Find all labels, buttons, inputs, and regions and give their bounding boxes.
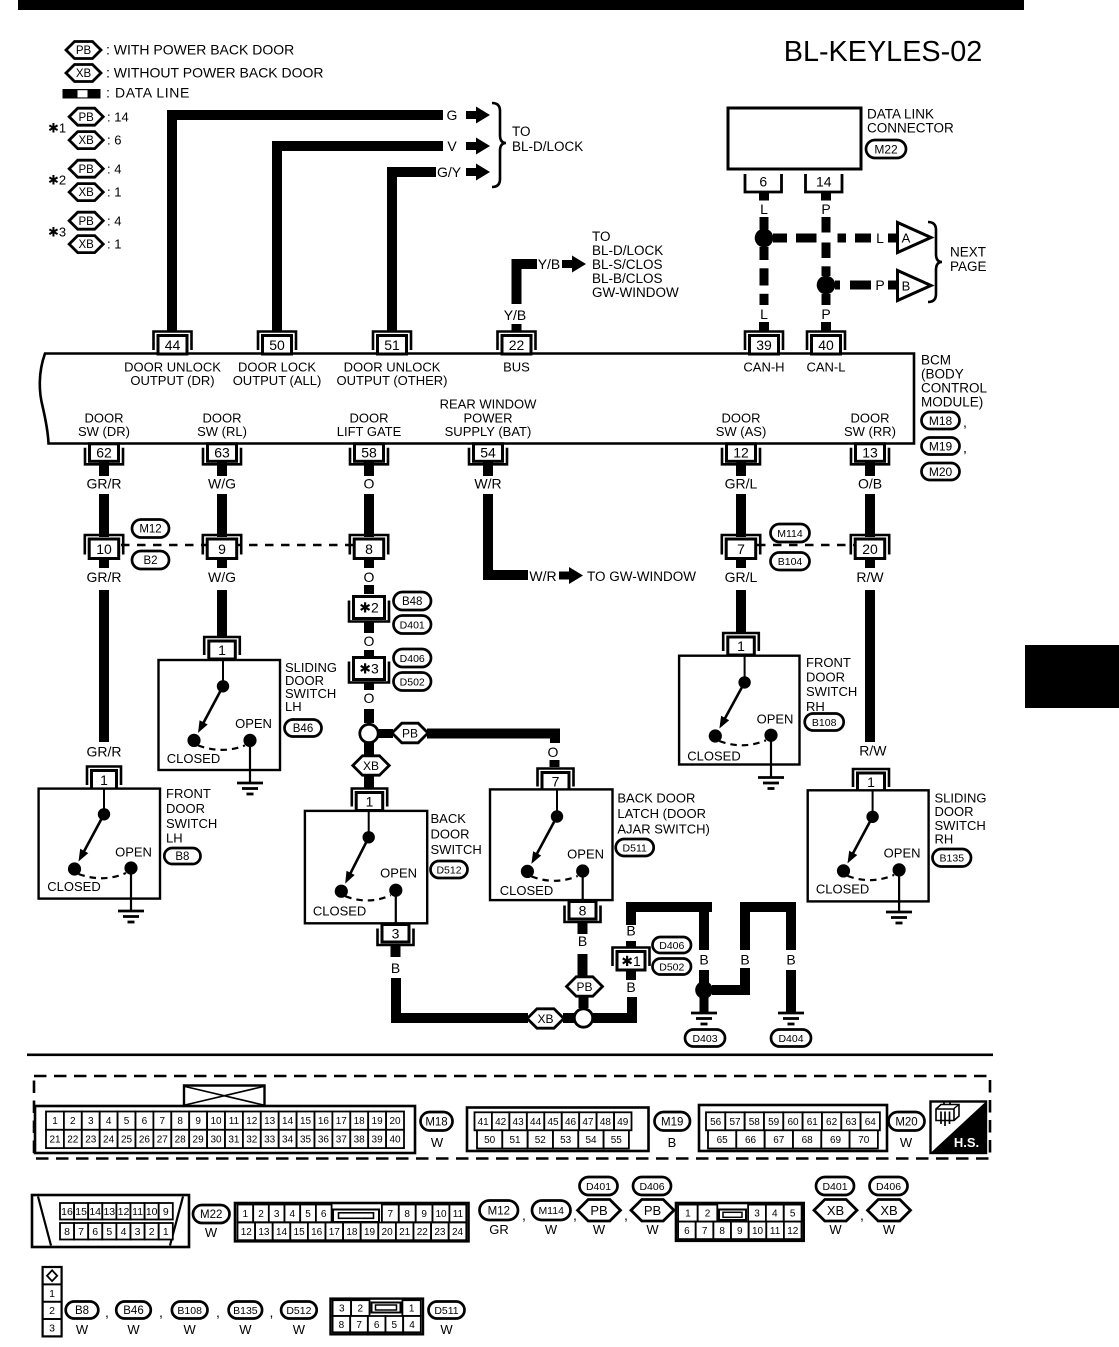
junction dot L <box>755 229 774 248</box>
inline connector pin 9 <box>203 535 241 555</box>
back door latch box <box>490 789 613 900</box>
svg-text:63: 63 <box>845 1117 857 1128</box>
wire stub <box>217 559 227 569</box>
wire G/Y vertical <box>387 172 397 331</box>
svg-text:W: W <box>900 1135 913 1150</box>
svg-text:23: 23 <box>85 1135 97 1146</box>
wire stub <box>99 559 109 569</box>
svg-text:5: 5 <box>124 1116 130 1127</box>
svg-text:O: O <box>364 569 375 585</box>
svg-text:REAR WINDOW: REAR WINDOW <box>440 397 538 412</box>
svg-text:O: O <box>364 476 375 492</box>
svg-text:AJAR SWITCH): AJAR SWITCH) <box>617 822 709 837</box>
svg-text:9: 9 <box>421 1209 427 1220</box>
connector M12 oval <box>480 1201 519 1221</box>
svg-text:12: 12 <box>118 1206 130 1218</box>
svg-text:: 14: : 14 <box>107 109 129 124</box>
arrow G/Y to BL-D/LOCK <box>466 168 477 176</box>
svg-text:B135: B135 <box>233 1305 258 1317</box>
svg-text:1: 1 <box>49 1288 55 1300</box>
svg-text:14: 14 <box>89 1206 101 1218</box>
inline connector pin 10 <box>85 535 123 555</box>
connector B48 oval <box>394 592 432 610</box>
legend data line symbol <box>63 89 101 99</box>
back door switch contacts <box>368 811 370 832</box>
svg-text:BUS: BUS <box>503 360 530 375</box>
svg-text:O/B: O/B <box>858 476 882 492</box>
svg-text:6: 6 <box>374 1320 380 1331</box>
svg-text:B: B <box>786 952 795 968</box>
brace to BL-D/LOCK <box>492 103 506 187</box>
wire GR/L down <box>736 590 746 632</box>
svg-text:SW (AS): SW (AS) <box>716 424 767 439</box>
connector M19 pins 41-49 <box>475 1112 492 1130</box>
svg-text:49: 49 <box>617 1117 629 1128</box>
svg-text:W: W <box>293 1322 306 1337</box>
legend *3 PB hexagon <box>69 212 103 229</box>
svg-text:43: 43 <box>513 1117 525 1128</box>
svg-text:B: B <box>902 278 911 293</box>
svg-text:L: L <box>760 306 768 322</box>
svg-text:1: 1 <box>100 772 108 788</box>
connector D401 oval <box>580 1177 618 1195</box>
svg-text:8: 8 <box>339 1320 345 1331</box>
svg-text:BACK: BACK <box>431 811 467 826</box>
svg-text:DOOR: DOOR <box>806 670 845 685</box>
dashed harness detail box <box>34 1076 990 1159</box>
svg-text:8: 8 <box>719 1226 725 1237</box>
wire top link up <box>626 907 636 925</box>
svg-text:2: 2 <box>49 1305 55 1317</box>
svg-text:42: 42 <box>495 1117 507 1128</box>
connector M12/M114 pinout table <box>235 1203 469 1241</box>
BCM pin 50 <box>258 332 296 351</box>
svg-text:1: 1 <box>409 1304 415 1315</box>
wire stub <box>364 684 374 691</box>
wire open contact to ground <box>770 742 772 778</box>
svg-text:B: B <box>740 952 749 968</box>
svg-text:B46: B46 <box>123 1305 143 1317</box>
svg-text:,: , <box>963 440 967 456</box>
svg-text:D403: D403 <box>692 1033 717 1045</box>
connector M18 oval <box>421 1112 453 1131</box>
connector D511 pinout table <box>331 1299 424 1335</box>
connector M18 pins 21-40 <box>46 1130 64 1148</box>
svg-text:XB: XB <box>79 135 95 147</box>
BCM pin 22 <box>498 332 536 351</box>
harness dashed line M12/B2 <box>121 544 353 546</box>
svg-text:D511: D511 <box>623 842 647 854</box>
svg-text:,: , <box>159 1304 163 1320</box>
svg-text:3: 3 <box>339 1304 345 1315</box>
wire top bar to D404 drop <box>740 902 796 912</box>
svg-text:24: 24 <box>452 1227 464 1238</box>
connector pin 1 front door switch LH <box>87 767 121 786</box>
svg-text:48: 48 <box>600 1117 612 1128</box>
wire L data line horizontal to next page A <box>773 234 871 243</box>
svg-text:,: , <box>105 1304 109 1320</box>
connector B135 oval <box>229 1302 263 1319</box>
svg-text:39: 39 <box>756 337 772 353</box>
connector M20 pins 56-64 <box>706 1112 725 1130</box>
svg-text:BL-KEYLES-02: BL-KEYLES-02 <box>784 36 983 68</box>
svg-text:8: 8 <box>365 541 373 557</box>
legend *1 XB hexagon <box>69 132 103 149</box>
svg-text:6: 6 <box>92 1226 98 1238</box>
svg-text:B: B <box>699 952 708 968</box>
svg-text:56: 56 <box>710 1117 722 1128</box>
svg-text:14: 14 <box>816 174 832 190</box>
svg-text:7: 7 <box>78 1226 84 1238</box>
svg-text:SWITCH: SWITCH <box>431 842 482 857</box>
svg-text:CLOSED: CLOSED <box>313 904 366 919</box>
wire Y/B vertical <box>512 259 522 304</box>
svg-text:PB: PB <box>76 45 92 57</box>
svg-text:D406: D406 <box>659 940 684 952</box>
svg-text:7: 7 <box>160 1116 166 1127</box>
svg-text:CLOSED: CLOSED <box>167 751 220 766</box>
svg-text:M20: M20 <box>895 1116 917 1128</box>
wire stub <box>578 954 588 976</box>
wire stub below *1 <box>626 971 636 980</box>
wire <box>99 494 109 537</box>
svg-text:34: 34 <box>282 1135 294 1146</box>
svg-text:Y/B: Y/B <box>538 256 561 272</box>
svg-text:15: 15 <box>294 1227 306 1238</box>
svg-text:D406: D406 <box>400 653 425 665</box>
svg-text:FRONT: FRONT <box>166 786 211 801</box>
svg-text:53: 53 <box>560 1135 572 1146</box>
wire P stub below pin 14 <box>821 193 831 201</box>
svg-text:DATA LINK: DATA LINK <box>867 107 934 122</box>
svg-text:66: 66 <box>745 1135 757 1146</box>
connector M22 pins 8-1 <box>60 1223 74 1240</box>
svg-text:7: 7 <box>388 1209 394 1220</box>
wire top bar over to D403 drop <box>626 902 712 912</box>
svg-text:L: L <box>876 230 884 246</box>
svg-text:✱3: ✱3 <box>359 661 379 677</box>
svg-text:M12: M12 <box>488 1205 510 1217</box>
BCM pin 63 <box>203 448 241 465</box>
svg-text:POWER: POWER <box>463 410 512 425</box>
svg-text:B104: B104 <box>778 556 803 568</box>
pins 7-11 <box>382 1205 399 1223</box>
svg-text:W: W <box>76 1322 89 1337</box>
connector B8 oval <box>164 848 200 864</box>
svg-text:TO GW-WINDOW: TO GW-WINDOW <box>587 569 696 584</box>
connector D502 oval <box>653 959 692 975</box>
svg-text:24: 24 <box>103 1135 115 1146</box>
svg-text:40: 40 <box>389 1135 401 1146</box>
svg-text:XB: XB <box>79 187 95 199</box>
svg-text:B: B <box>668 1135 677 1150</box>
connector D502 oval <box>394 673 432 691</box>
wire L data line upper <box>760 217 769 230</box>
XB hexagon splice <box>353 756 389 775</box>
wire stub below pin 63 <box>217 462 227 476</box>
svg-text:SWITCH: SWITCH <box>166 816 217 831</box>
connector M22 oval <box>193 1205 230 1223</box>
ground sliding door switch RH <box>886 911 912 914</box>
svg-text:3: 3 <box>274 1209 280 1220</box>
wire P data line horizontal to next page B <box>835 281 871 290</box>
svg-text:5: 5 <box>392 1320 398 1331</box>
pins 12-24 <box>238 1223 256 1241</box>
BCM body control module box <box>40 354 914 444</box>
connector pin 1 sliding door switch LH <box>204 637 240 655</box>
svg-text:51: 51 <box>509 1135 521 1146</box>
svg-text:Y/B: Y/B <box>504 307 527 323</box>
wire O down <box>364 585 374 594</box>
brace next page <box>928 222 942 302</box>
svg-text:D512: D512 <box>436 864 461 876</box>
ground D404 <box>778 1012 804 1015</box>
svg-text:D404: D404 <box>778 1033 803 1045</box>
svg-text:XB: XB <box>537 1012 553 1026</box>
svg-text:G/Y: G/Y <box>437 164 462 180</box>
svg-text:22: 22 <box>67 1135 79 1146</box>
svg-text:22: 22 <box>509 337 525 353</box>
wire from circle to B/*1 riser <box>593 1013 637 1023</box>
wire XB below junction <box>364 743 374 756</box>
svg-text:2: 2 <box>149 1226 155 1238</box>
svg-text:OPEN: OPEN <box>567 847 604 862</box>
page edge black tab <box>1025 645 1119 708</box>
inline connector pin 8 <box>350 535 388 555</box>
connector D401 oval <box>394 616 432 634</box>
svg-text:50: 50 <box>269 337 285 353</box>
connector D512 oval <box>431 861 468 878</box>
svg-text:B46: B46 <box>293 723 313 735</box>
wire L data line lower <box>760 247 769 305</box>
svg-text:9: 9 <box>737 1226 743 1237</box>
svg-text:OPEN: OPEN <box>235 716 272 731</box>
svg-text:1: 1 <box>685 1209 691 1220</box>
svg-text:39: 39 <box>372 1135 384 1146</box>
svg-text:R/W: R/W <box>856 569 884 585</box>
wire L stub below pin 6 <box>759 193 769 201</box>
svg-text:15: 15 <box>300 1116 312 1127</box>
svg-text:BL-S/CLOS: BL-S/CLOS <box>592 257 663 272</box>
back door latch contacts <box>556 789 558 811</box>
svg-text:W/G: W/G <box>208 569 236 585</box>
svg-text:22: 22 <box>417 1227 429 1238</box>
wire stub <box>364 709 374 723</box>
svg-text:1: 1 <box>366 794 374 810</box>
svg-text:13: 13 <box>103 1206 115 1218</box>
svg-text:W: W <box>593 1222 606 1237</box>
wire stub below pin 8 <box>578 921 588 934</box>
svg-text:CLOSED: CLOSED <box>687 748 740 763</box>
ground front door switch RH <box>758 776 784 779</box>
svg-text:,: , <box>963 414 967 430</box>
svg-text:CAN-H: CAN-H <box>743 360 784 375</box>
sliding door switch LH box <box>159 660 281 770</box>
connector pin 1 front door switch RH <box>723 633 759 651</box>
svg-text:NEXT: NEXT <box>950 245 986 260</box>
svg-text:CONTROL: CONTROL <box>921 381 987 396</box>
connector *3 with D406/D502 <box>349 662 389 683</box>
svg-text:29: 29 <box>193 1135 205 1146</box>
inline connector pin 20 <box>851 535 889 555</box>
PB hexagon <box>631 1200 674 1222</box>
connector pin 8 back door latch <box>565 906 601 923</box>
svg-text:CLOSED: CLOSED <box>816 882 869 897</box>
connector B108 oval <box>172 1302 208 1319</box>
svg-text:P: P <box>821 201 830 217</box>
next page triangle A <box>898 223 932 253</box>
wire stub below pin 54 <box>483 462 493 476</box>
svg-text:11: 11 <box>770 1226 781 1237</box>
svg-text:M114: M114 <box>538 1205 564 1217</box>
BCM pin 44 <box>154 332 192 351</box>
svg-text:16: 16 <box>311 1227 323 1238</box>
svg-text:6: 6 <box>321 1209 327 1220</box>
svg-text:63: 63 <box>214 445 230 461</box>
svg-text:64: 64 <box>865 1117 877 1128</box>
svg-text:60: 60 <box>787 1117 799 1128</box>
svg-text:W/G: W/G <box>208 476 236 492</box>
connector D406 oval <box>394 649 432 667</box>
svg-text:: 1: : 1 <box>107 185 121 200</box>
svg-text:55: 55 <box>611 1135 623 1146</box>
svg-text:1: 1 <box>243 1209 249 1220</box>
svg-text:52: 52 <box>535 1135 547 1146</box>
wire XB to back door switch pin 1 <box>364 775 374 788</box>
connector D511 oval <box>616 839 654 856</box>
svg-text:D512: D512 <box>286 1305 311 1317</box>
svg-text:G: G <box>447 107 458 123</box>
wire riser right segment <box>627 997 637 1018</box>
svg-text:LH: LH <box>285 699 302 714</box>
svg-text:MODULE): MODULE) <box>921 395 983 410</box>
wire <box>865 494 875 537</box>
svg-text:4: 4 <box>290 1209 296 1220</box>
connector pin 1 back door switch <box>352 789 387 807</box>
svg-text:37: 37 <box>336 1135 348 1146</box>
BCM pin 51 <box>373 332 411 351</box>
svg-text:✱3: ✱3 <box>48 225 66 240</box>
connector M19 pins 50-55 <box>477 1130 502 1148</box>
svg-text:OPEN: OPEN <box>380 866 417 881</box>
wire PB splice to junction circle <box>579 997 589 1009</box>
svg-text:D401: D401 <box>400 619 425 631</box>
svg-text:2: 2 <box>358 1304 364 1315</box>
svg-text:17: 17 <box>336 1116 348 1127</box>
svg-text:✱2: ✱2 <box>359 600 379 616</box>
svg-text:13: 13 <box>264 1116 276 1127</box>
PB hexagon ground splice <box>567 977 603 996</box>
svg-text:✱1: ✱1 <box>621 953 641 969</box>
svg-text:18: 18 <box>346 1227 358 1238</box>
wire stub to triangle A <box>888 234 897 243</box>
sliding door switch LH contacts <box>222 660 224 681</box>
svg-text:1: 1 <box>52 1116 58 1127</box>
svg-text:P: P <box>821 306 830 322</box>
wire G vertical <box>167 115 177 331</box>
arrow Y/B <box>562 260 573 268</box>
svg-text:4: 4 <box>772 1209 778 1220</box>
svg-text:45: 45 <box>547 1117 559 1128</box>
wire tie XB to junction circle <box>563 1013 575 1023</box>
connector M22 pinout table <box>32 1195 189 1247</box>
svg-text:PB: PB <box>576 980 592 994</box>
svg-text:W: W <box>440 1322 453 1337</box>
svg-text:61: 61 <box>807 1117 819 1128</box>
svg-text:✱2: ✱2 <box>48 173 66 188</box>
wire G horizontal <box>167 110 443 120</box>
svg-text:1: 1 <box>163 1226 169 1238</box>
arrow to GW-WINDOW <box>559 572 570 580</box>
svg-text:A: A <box>902 230 911 245</box>
svg-text:M114: M114 <box>777 528 803 540</box>
wire P data line lower <box>822 294 831 305</box>
svg-text:26: 26 <box>139 1135 151 1146</box>
svg-text:W: W <box>205 1225 218 1240</box>
svg-text:RH: RH <box>806 699 825 714</box>
front door switch RH box <box>679 656 799 765</box>
svg-text:31: 31 <box>228 1135 240 1146</box>
svg-text:7: 7 <box>702 1226 708 1237</box>
connector pin 3 back door switch <box>378 929 414 946</box>
svg-text:TO: TO <box>592 229 611 244</box>
wire open contact down to pin 8 <box>582 877 584 900</box>
data link connector M22 box <box>728 108 861 169</box>
svg-text:62: 62 <box>826 1117 838 1128</box>
svg-text:XB: XB <box>79 239 95 251</box>
wire W/R horizontal to GW-WINDOW <box>488 570 528 580</box>
svg-text:(BODY: (BODY <box>921 367 964 382</box>
svg-text:: WITH POWER BACK DOOR: : WITH POWER BACK DOOR <box>106 42 294 58</box>
svg-text:OUTPUT (ALL): OUTPUT (ALL) <box>233 373 322 388</box>
H.S. connector icon <box>936 1105 959 1121</box>
svg-text:: WITHOUT POWER BACK DOOR: : WITHOUT POWER BACK DOOR <box>106 65 324 81</box>
svg-text:,: , <box>624 1207 628 1223</box>
svg-text:11: 11 <box>453 1209 464 1220</box>
svg-text:R/W: R/W <box>859 743 887 759</box>
svg-text:CLOSED: CLOSED <box>47 879 100 894</box>
svg-text:6: 6 <box>684 1226 690 1237</box>
svg-text:3: 3 <box>392 925 400 941</box>
svg-text:9: 9 <box>218 541 226 557</box>
svg-text:1: 1 <box>737 638 745 654</box>
junction circle node <box>360 724 378 742</box>
svg-text:M19: M19 <box>929 439 953 453</box>
sliding door switch RH contacts <box>872 790 874 812</box>
connector D406 oval <box>870 1177 908 1195</box>
svg-text:O: O <box>364 690 375 706</box>
pins 6-12 <box>678 1222 696 1240</box>
svg-text:38: 38 <box>354 1135 366 1146</box>
connector M12 oval <box>132 520 169 538</box>
svg-text:33: 33 <box>264 1135 276 1146</box>
wire open contact to ground <box>898 877 900 913</box>
svg-text:PB: PB <box>79 216 95 228</box>
svg-text:GR/R: GR/R <box>87 744 122 760</box>
svg-text:40: 40 <box>818 337 834 353</box>
svg-text:BL-B/CLOS: BL-B/CLOS <box>592 271 663 286</box>
connector B8 oval <box>66 1302 99 1319</box>
wire stub below pin 62 <box>99 462 109 476</box>
svg-text:7: 7 <box>552 774 560 790</box>
wire <box>736 494 746 537</box>
wire V vertical <box>272 146 282 331</box>
junction dot D403 <box>695 981 713 999</box>
svg-text:2: 2 <box>258 1209 264 1220</box>
connector M18 tab <box>184 1086 265 1107</box>
svg-text:D502: D502 <box>659 961 684 973</box>
svg-text:XB: XB <box>363 759 379 773</box>
